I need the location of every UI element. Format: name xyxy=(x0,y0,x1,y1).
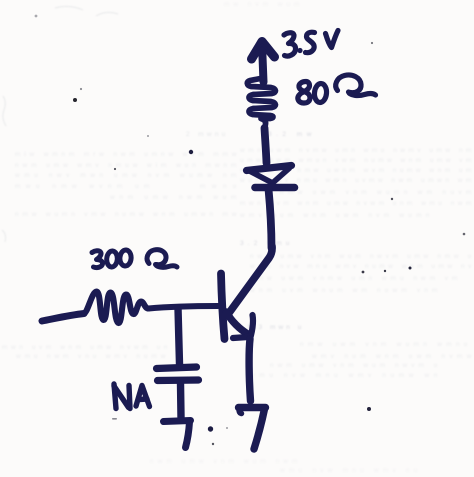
svg-text:nmw wumn vmw numw wnm umwn mw: nmw wumn vmw numw wnm umwn mw xyxy=(15,211,237,218)
svg-text:nwm umw vnm wum nwvm umw nmw u: nwm umw vnm wum nwvm umw nmw u xyxy=(250,253,472,260)
svg-text:wmu nvw mnu wmv numw wnm umw n: wmu nvw mnu wmv numw wnm umw nv xyxy=(249,263,472,270)
svg-text:mw nvm wum: mw nvm wum xyxy=(224,1,300,8)
svg-text:mwn uvm wnm umw nvwm un: mwn uvm wnm umw nvwm un xyxy=(2,344,168,351)
svg-text:wmu nvw mnu wmv numw wn: wmu nvw mnu wmv numw wn xyxy=(249,372,438,379)
svg-text:miw wmnm mrw nwm umnw wvm mmw: miw wmnm mrw nwm umnw wvm mmw xyxy=(15,151,237,158)
svg-text:mwu nmw wvnm um: mwu nmw wvnm um xyxy=(15,183,150,190)
svg-text:nwm umw vnm wum nwvm u: nwm umw vnm wum nwvm u xyxy=(270,362,438,369)
svg-text:nmw uwm vnm wumn wm nuvm: nmw uwm vnm wumn wm nuvm xyxy=(280,189,472,196)
svg-text:wnm umw nwm wum: wnm umw nwm wum xyxy=(109,194,237,201)
svg-text:nwm umw vnm wum nwm: nwm umw vnm wum nwm xyxy=(150,458,298,465)
